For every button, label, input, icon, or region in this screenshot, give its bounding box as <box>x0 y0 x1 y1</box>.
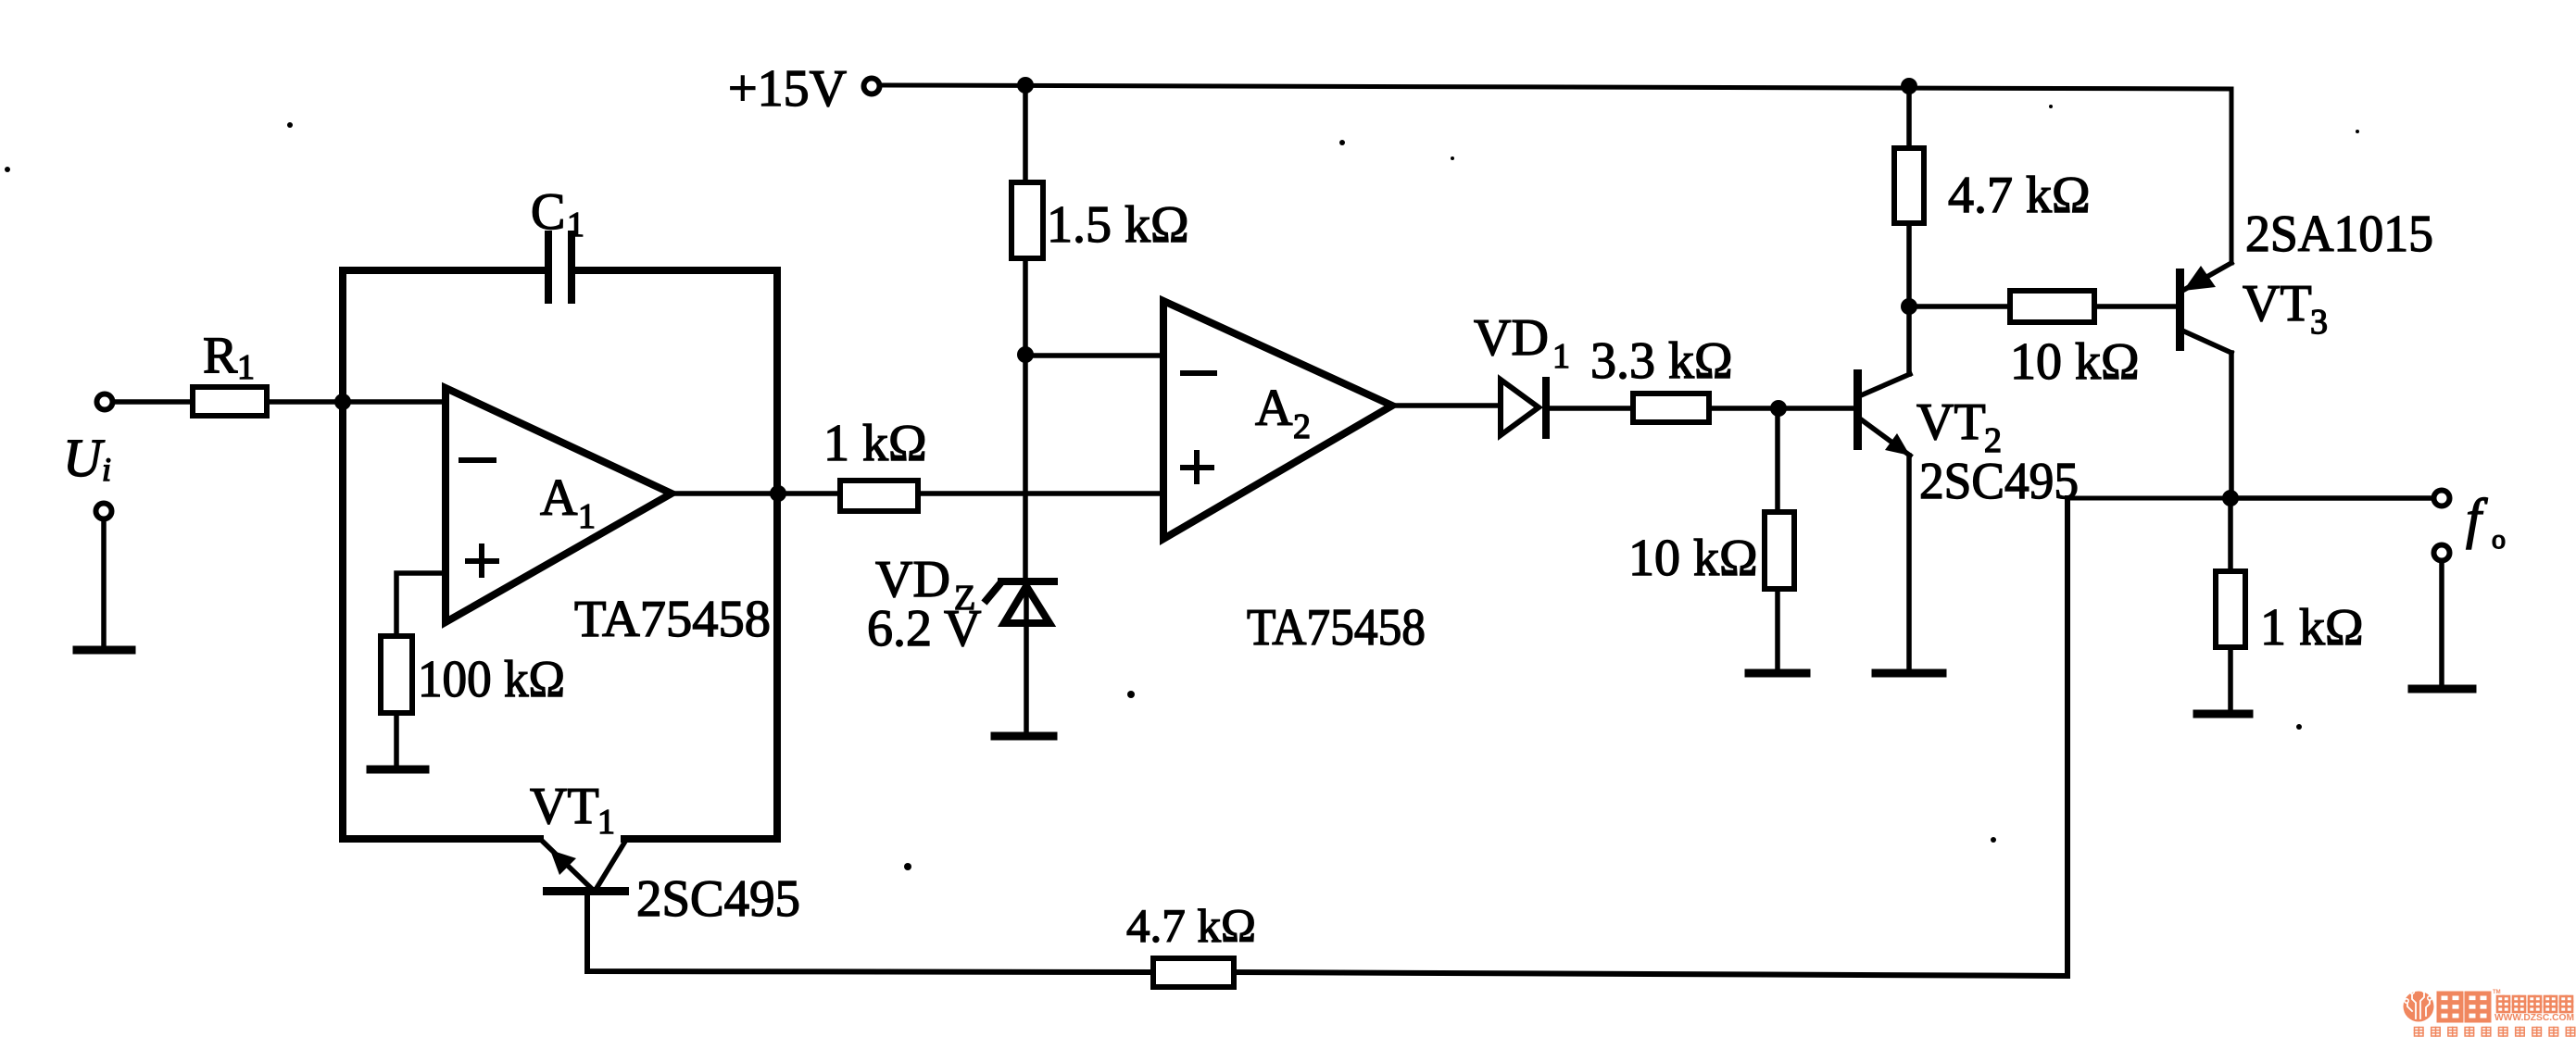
wire feedback box top right segment <box>575 267 777 274</box>
wire 4.7k bottom to VT1 <box>587 895 1153 972</box>
wire output node to 1k load <box>2228 498 2233 571</box>
svg-text:3: 3 <box>2310 303 2328 342</box>
svg-text:10 kΩ: 10 kΩ <box>1628 530 1758 587</box>
terminal fo lower <box>2434 545 2450 561</box>
svg-text:3.3 kΩ: 3.3 kΩ <box>1590 332 1733 390</box>
terminal Ui lower <box>96 504 112 519</box>
svg-text:o: o <box>2492 524 2506 555</box>
ground zener <box>995 732 1053 741</box>
wire VT3 collector down <box>2229 353 2234 498</box>
wire feedback box left vertical <box>339 270 346 839</box>
svg-text:4.7 kΩ: 4.7 kΩ <box>1948 167 2091 224</box>
wire 4.7k top lead <box>1906 86 1912 148</box>
zener diode VDz <box>986 581 1054 623</box>
node junction R1-feedback <box>334 394 351 410</box>
svg-text:1: 1 <box>1552 337 1570 376</box>
resistor 1 kOhm (load) <box>2216 571 2245 647</box>
node junction collector-10k <box>1901 298 1917 315</box>
svg-text:VT: VT <box>530 778 599 835</box>
svg-text:TA75458: TA75458 <box>574 591 771 648</box>
wire A2 output <box>1392 403 1501 408</box>
svg-text:VT: VT <box>1916 394 1986 451</box>
resistor R1 <box>193 387 267 416</box>
svg-text:2SC495: 2SC495 <box>1919 453 2079 510</box>
wire input to R1 <box>115 399 193 405</box>
wire R1 to A1 minus input <box>267 399 446 405</box>
wire output node to fo terminal <box>2230 495 2431 501</box>
wire 10k top lead <box>1775 408 1780 512</box>
node junction rail-4.7k <box>1901 78 1917 94</box>
svg-text:1 kΩ: 1 kΩ <box>2260 599 2364 656</box>
wire feedback box bottom left segment <box>343 835 540 843</box>
wire feedback box bottom right segment <box>624 835 777 843</box>
svg-text:R: R <box>203 327 238 384</box>
wire 100k to ground <box>394 713 399 766</box>
ground 10k <box>1749 669 1806 678</box>
resistor 100 kOhm <box>381 636 412 713</box>
svg-text:1.5 kΩ: 1.5 kΩ <box>1047 196 1189 254</box>
terminal input Ui <box>97 394 113 410</box>
resistor 10 kOhm (VT2 base pulldown) <box>1765 512 1794 589</box>
scan specks <box>5 105 2359 870</box>
resistor 10 kOhm (VT3 base) <box>2010 291 2094 322</box>
svg-text:A: A <box>1255 380 1293 437</box>
svg-text:2SA1015: 2SA1015 <box>2245 206 2433 263</box>
svg-text:4.7 kΩ: 4.7 kΩ <box>1126 901 1256 953</box>
ground VT2 emitter <box>1876 669 1942 678</box>
wire 1.5k top lead <box>1023 85 1028 182</box>
svg-text:100 kΩ: 100 kΩ <box>418 651 565 708</box>
wire 10k to VT3 base <box>2094 304 2176 309</box>
svg-text:VT: VT <box>2243 275 2312 332</box>
op-amp A1 <box>446 388 672 622</box>
svg-text:A: A <box>540 469 578 527</box>
wire VT2 collector <box>1906 306 1912 374</box>
terminal fo upper <box>2434 491 2450 506</box>
svg-text:2: 2 <box>1293 407 1311 446</box>
resistor 4.7 kOhm (bottom) <box>1153 958 1234 987</box>
wire A1 plus input stub <box>396 573 446 636</box>
op-amp A2 <box>1163 301 1392 539</box>
node junction A1 output <box>770 485 786 502</box>
ground Ui <box>77 646 132 655</box>
wire feedback bottom run <box>1234 498 2067 976</box>
ground 100k <box>371 766 425 774</box>
svg-text:VD: VD <box>1474 309 1549 367</box>
wire zener anode <box>1024 586 1029 732</box>
wire feedback box right vertical <box>773 270 781 839</box>
svg-text:C: C <box>531 183 565 241</box>
svg-text:i: i <box>102 451 111 488</box>
ground fo <box>2412 685 2472 693</box>
svg-text:1 kΩ: 1 kΩ <box>823 415 927 472</box>
watermark dzsc logo <box>2404 988 2434 1022</box>
node junction rail-1.5k <box>1017 77 1034 94</box>
wire fo lower to ground <box>2439 563 2444 685</box>
svg-text:1: 1 <box>597 803 615 842</box>
diode VD1 <box>1501 380 1546 435</box>
svg-text:6.2 V: 6.2 V <box>867 600 981 657</box>
node junction output <box>2222 490 2239 506</box>
node junction base-10k <box>1770 400 1787 417</box>
transistor VT3 2SA1015 <box>2176 269 2184 351</box>
node junction minus-input <box>1017 346 1034 363</box>
svg-text:10 kΩ: 10 kΩ <box>2010 333 2140 391</box>
svg-text:1: 1 <box>237 348 255 387</box>
wire feedback box top left segment <box>343 267 545 274</box>
capacitor C1 <box>548 234 572 300</box>
wire A1 output <box>672 491 840 496</box>
wire Ui lower to ground <box>101 521 107 646</box>
wire 4.7k bottom lead <box>1906 223 1912 306</box>
resistor 4.7 kOhm (top) <box>1894 148 1924 223</box>
wire top rail <box>883 85 2231 263</box>
wire 1k to A2 plus input <box>918 491 1163 496</box>
svg-text:+15V: +15V <box>728 60 847 118</box>
wire VT2 emitter to ground <box>1906 456 1912 669</box>
transistor VT1 2SC495 <box>543 887 629 895</box>
node +15V label <box>728 60 847 118</box>
svg-text:2SC495: 2SC495 <box>636 870 800 928</box>
svg-text:TM: TM <box>2493 990 2501 995</box>
resistor 1 kOhm (A1 output) <box>840 481 918 511</box>
wire junction to 10k series <box>1909 304 2010 309</box>
wire to A2 minus input <box>1025 353 1163 358</box>
resistor 1.5 kOhm <box>1012 182 1043 258</box>
wire zener vertical (crosses signal line, no dot) <box>1023 355 1028 578</box>
wire 1.5k bottom lead to minus node <box>1023 258 1028 355</box>
transistor VT2 2SC495 <box>1853 369 1862 450</box>
terminal +15V <box>864 79 880 94</box>
wire 10k to ground <box>1775 589 1780 669</box>
wire VD1 to 3.3k <box>1549 406 1633 411</box>
resistor 3.3 kOhm <box>1633 394 1709 422</box>
svg-text:TA75458: TA75458 <box>1247 599 1426 656</box>
svg-text:1: 1 <box>567 206 584 244</box>
svg-text:WWW.DZSC.COM: WWW.DZSC.COM <box>2494 1013 2574 1023</box>
wire 3.3k to VT2 base <box>1709 406 1853 411</box>
wire 1k load to ground <box>2228 647 2233 710</box>
svg-text:1: 1 <box>578 497 596 536</box>
svg-text:U: U <box>63 428 106 488</box>
ground 1k load <box>2197 710 2249 718</box>
